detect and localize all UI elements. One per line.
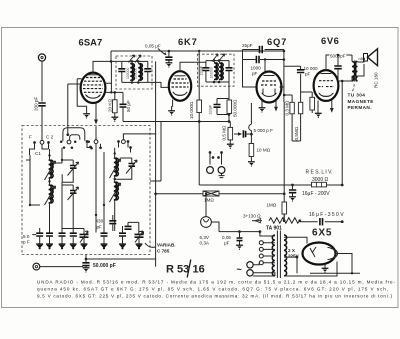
- svg-text:pF: pF: [252, 71, 258, 76]
- resistor 10 MOhm: [249, 144, 254, 157]
- osc wires top: [87, 126, 156, 152]
- trimmer T3: [129, 164, 136, 167]
- grid wires left: [68, 84, 81, 135]
- vertical line x284: [283, 102, 285, 220]
- oscillator coil L4: [116, 182, 119, 200]
- svg-text:6SA7: 6SA7: [79, 37, 103, 48]
- IF1 capacitor left: [118, 69, 125, 72]
- wire IF1 sec to 6K7 grid: [148, 82, 169, 87]
- wire antenna down: [41, 61, 43, 101]
- svg-text:C 785: C 785: [157, 249, 170, 254]
- trimmer arrows IF2: [212, 54, 225, 62]
- svg-text:0,3A: 0,3A: [200, 241, 210, 246]
- wire to box terminal: [41, 106, 43, 141]
- tube 6Q7: [257, 72, 282, 103]
- primary bottom wire: [338, 81, 352, 185]
- IF1 capacitor right: [144, 69, 151, 72]
- svg-text:16: 16: [193, 264, 205, 276]
- diode load wire: [228, 82, 230, 100]
- plate wire to IF1: [93, 61, 122, 72]
- antenna coil L1: [51, 160, 54, 178]
- svg-text:5 0: 5 0: [23, 234, 30, 239]
- tube 6V6: [314, 70, 339, 101]
- AVC wire: [123, 121, 199, 123]
- svg-text:6Q7: 6Q7: [267, 36, 287, 47]
- capacitor 50.000 pF: [85, 255, 87, 263]
- svg-text:p F: p F: [23, 240, 30, 245]
- grid stopper 6V6: [301, 92, 313, 97]
- diode return: [275, 101, 277, 108]
- resistor 50.000 Ohm: [227, 100, 232, 114]
- IF1 primary coil: [132, 64, 135, 81]
- svg-text:R E S. L I V.: R E S. L I V.: [306, 170, 333, 176]
- svg-text:100000: 100000: [133, 68, 137, 79]
- svg-text:MAGNETE: MAGNETE: [348, 99, 374, 104]
- svg-text:9,5 V catodo. 6X5 GT: 225 V pl: 9,5 V catodo. 6X5 GT: 225 V pl, 235 V ca…: [37, 294, 392, 299]
- svg-text:1MΩ: 1MΩ: [267, 203, 277, 208]
- variable capacitor CV2: [135, 234, 144, 237]
- ground 10M: [248, 162, 255, 167]
- switch contact dots: [60, 141, 63, 144]
- terminal antenna: [40, 140, 44, 144]
- tube 6SA7: [81, 73, 106, 103]
- svg-text:6K7: 6K7: [178, 36, 198, 47]
- terminal ground bottom: [33, 263, 40, 270]
- capacitor 1000 pF: [243, 59, 284, 61]
- osc coil wires: [96, 148, 115, 233]
- volume pot 0,5 MOhm: [228, 127, 233, 139]
- svg-text:10 000: 10 000: [304, 66, 318, 71]
- resistor 1 MOhm vertical: [282, 202, 287, 214]
- grounds bottom row B: [101, 236, 143, 249]
- svg-text:0,05 μF: 0,05 μF: [145, 44, 161, 49]
- capacitor 16uF-200V: [289, 190, 296, 193]
- secondary winding: [284, 235, 287, 276]
- 6X5 wires: [287, 237, 353, 276]
- svg-text:RC 160: RC 160: [374, 72, 379, 88]
- grounds bottom row A: [36, 228, 87, 249]
- svg-text:3+130 Ω: 3+130 Ω: [243, 214, 261, 219]
- capacitor 10 000 pF: [284, 66, 301, 102]
- wiper arrow + cap 5000pF: [234, 133, 241, 135]
- bottom caps row section A: [36, 233, 43, 236]
- resistor 0,5 MOhm grid 6V6: [298, 102, 302, 114]
- svg-text:0,05: 0,05: [222, 235, 231, 240]
- plate wire 6V6 top: [326, 55, 352, 70]
- svg-text:50.000 pF: 50.000 pF: [93, 263, 116, 269]
- svg-text:UNDA RADIO - Mod. R 53/16 e mo: UNDA RADIO - Mod. R 53/16 e mod. R 53/17…: [37, 280, 395, 285]
- svg-text:5 000 p F: 5 000 p F: [254, 128, 274, 133]
- wires section A top: [26, 143, 49, 161]
- osc line from box: [150, 122, 161, 182]
- mains terminals: [247, 262, 253, 268]
- svg-text:0,5MΩ: 0,5MΩ: [294, 126, 299, 140]
- tube 6X5: [303, 243, 336, 265]
- trimmer cap T1: [70, 166, 77, 169]
- capacitor 200 pF: [38, 103, 45, 106]
- svg-text:430: 430: [96, 219, 104, 224]
- svg-text:100pF: 100pF: [200, 66, 204, 76]
- cathode wire right: [105, 83, 124, 92]
- capacitor 100 pF diode: [214, 105, 221, 108]
- wire AVC bus right: [199, 184, 342, 186]
- svg-text:20 KΩ: 20 KΩ: [107, 99, 112, 112]
- band switch wires: [63, 128, 85, 141]
- tuning box dashed: [22, 126, 150, 255]
- svg-text:quenza 450 kc. 6SA7 GT e 6K7 G: quenza 450 kc. 6SA7 GT e 6K7 G: 175 V pl…: [37, 287, 388, 292]
- IF transformer 1 box: [116, 56, 152, 89]
- oscillator coil L3: [116, 158, 119, 176]
- capacitor 50 pF: [120, 104, 127, 107]
- oscillator terminal 2: [122, 140, 126, 144]
- svg-text:0,5 MΩ: 0,5 MΩ: [222, 125, 227, 140]
- B+ bus: [111, 50, 284, 52]
- antenna terminal: [38, 54, 45, 61]
- svg-text:pF: pF: [305, 71, 311, 76]
- IF1 secondary coil: [140, 64, 143, 81]
- svg-text:50 pF: 50 pF: [126, 100, 131, 112]
- trimmer cap T2: [70, 191, 77, 194]
- svg-text:C1: C1: [35, 151, 41, 156]
- svg-text:16μF - 200V: 16μF - 200V: [302, 191, 330, 197]
- svg-text:10 MΩ: 10 MΩ: [257, 148, 271, 153]
- oscillator terminal 1: [94, 140, 98, 144]
- svg-text:n50: n50: [359, 56, 366, 61]
- svg-text:100pF: 100pF: [209, 105, 213, 115]
- svg-text:10.000Ω: 10.000Ω: [189, 101, 194, 119]
- AVC vertical line: [155, 61, 157, 266]
- svg-text:25pF: 25pF: [242, 43, 253, 48]
- svg-text:PERMAN.: PERMAN.: [348, 105, 372, 110]
- IF2 internal wires: [206, 61, 229, 82]
- variable capacitor CV1: [80, 234, 89, 237]
- wire ground terminal: [40, 266, 83, 268]
- plate dot: [280, 86, 283, 89]
- plate riser: [283, 50, 285, 103]
- trimmer arrows IF1: [129, 55, 142, 63]
- svg-text:TU 304: TU 304: [348, 93, 366, 98]
- junction dots: [86, 140, 89, 143]
- cathode ground 6K7: [172, 100, 173, 111]
- IF2 secondary coil: [221, 63, 224, 80]
- svg-text:6,3V: 6,3V: [200, 235, 210, 240]
- tap terminals: [259, 241, 263, 245]
- svg-text:1000: 1000: [251, 66, 262, 71]
- svg-text:50.000Ω: 50.000Ω: [233, 99, 238, 117]
- speaker RC160: [358, 58, 365, 76]
- heater wire: [219, 231, 260, 233]
- svg-text:R 53: R 53: [166, 264, 189, 276]
- svg-text:100000: 100000: [210, 67, 214, 78]
- primary winding: [272, 235, 275, 276]
- IF2 primary coil: [216, 63, 219, 80]
- svg-text:100000: 100000: [126, 68, 130, 79]
- osc grid arrow: [95, 103, 97, 121]
- grid line 6Q7: [249, 103, 252, 144]
- grid riser: [243, 50, 257, 88]
- cathode ground 6Q7: [261, 101, 263, 108]
- ground 0,05uF: [166, 63, 173, 68]
- svg-text:~: ~: [237, 265, 242, 275]
- IF2 capacitor left 100pF: [202, 68, 209, 71]
- svg-text:C 2: C 2: [46, 135, 54, 140]
- tube 6K7: [169, 71, 191, 101]
- screen wire: [198, 51, 200, 100]
- plate wire 6K7: [180, 62, 206, 71]
- grid cap wire 6Q7: [264, 60, 266, 72]
- svg-text:6V6: 6V6: [321, 35, 339, 46]
- svg-text:TA 901: TA 901: [266, 226, 282, 232]
- svg-text:16 μ F - 3 5 0 V: 16 μ F - 3 5 0 V: [309, 212, 344, 218]
- resistor 0,3 MOhm: [290, 102, 294, 114]
- coil core arrows: [45, 161, 56, 205]
- ground cathode: [111, 117, 118, 122]
- ground 6SA7 g: [86, 111, 88, 114]
- padder capacitor 430 pF: [109, 221, 116, 224]
- svg-text:0,3 MΩ: 0,3 MΩ: [285, 100, 290, 115]
- IF transformer 2 box: [198, 54, 235, 86]
- resistor 10.000 Ohm: [197, 100, 202, 113]
- IF2 capacitor right: [226, 68, 233, 71]
- cathode arrow 6V6: [331, 100, 333, 108]
- pilot lamp: [201, 217, 212, 228]
- svg-text:6X5: 6X5: [312, 228, 332, 239]
- capacitor 16uF-350V: [300, 221, 342, 223]
- coil wires: [30, 149, 50, 233]
- resistor 20 KOhm: [113, 100, 118, 113]
- output transformer TU304: [352, 62, 355, 82]
- primary taps: [253, 236, 275, 276]
- ground 6V6: [315, 113, 322, 118]
- svg-text:pF: pF: [97, 225, 103, 230]
- IF1 internal wires: [122, 61, 148, 82]
- svg-text:F: F: [29, 135, 32, 140]
- bottom caps row section B: [101, 233, 108, 236]
- wire B+ riser: [110, 51, 112, 92]
- svg-text:2 X: 2 X: [288, 248, 296, 253]
- svg-text:200 pF: 200 pF: [34, 97, 39, 111]
- PU terminals: [209, 151, 212, 154]
- svg-text:μF: μF: [224, 241, 230, 246]
- svg-text:VARIAB.: VARIAB.: [157, 243, 176, 248]
- secondary taps: [284, 237, 297, 276]
- fuse resistor 1 MOhm: [156, 193, 203, 195]
- terminal sw1: [67, 140, 71, 144]
- coil core arrows B: [110, 159, 121, 202]
- antenna coil L2: [51, 185, 54, 203]
